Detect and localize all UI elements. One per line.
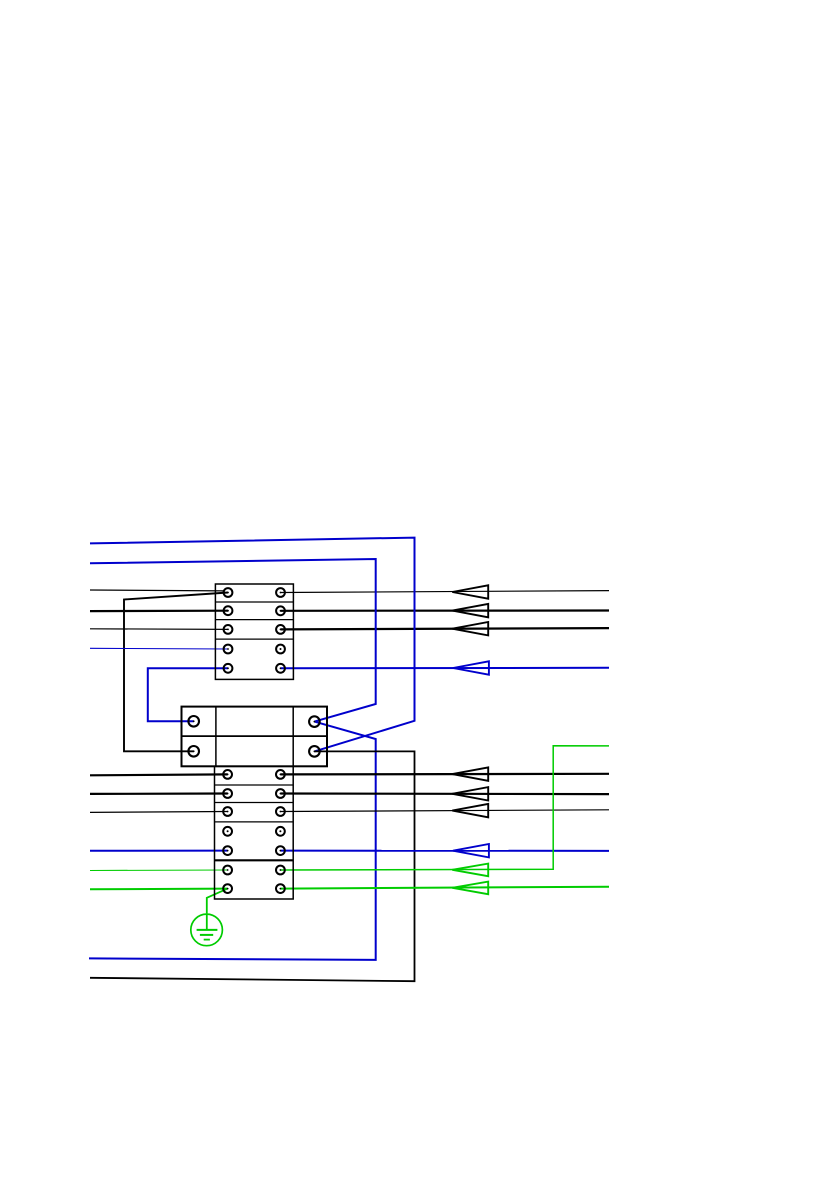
terminal TB2 pin 2L — [188, 746, 199, 757]
terminal block TB1 outline — [215, 584, 293, 679]
terminal TB1 pin 3L — [224, 625, 233, 634]
terminal block TB3 outline — [215, 766, 294, 899]
arrowhead on wire W22 — [452, 787, 488, 800]
wire W11 blue thick, top loop to TB2 pin 2R — [90, 538, 415, 752]
wire W27 green, TB3 pin 7L to ground — [207, 889, 228, 914]
terminal TB3 pin 5L — [223, 846, 232, 855]
TB2 inner vertical right — [292, 707, 294, 767]
TB3 cell separator 2 — [215, 802, 294, 804]
terminal TB3 pin 2R — [276, 789, 285, 798]
arrowhead on wire W7 — [452, 585, 488, 598]
terminal TB3 pin 4R (unconnected, centre dot) — [276, 827, 285, 836]
terminal TB3 pin 2L — [223, 789, 232, 798]
terminal TB3 pin 5R — [276, 846, 285, 855]
terminal TB1 pin 2R — [276, 606, 285, 615]
terminal TB1 pin 4R (unconnected, centre dot) — [276, 645, 285, 654]
terminal TB3 pin 3L — [223, 807, 232, 816]
ground (protective earth symbol) — [191, 913, 223, 945]
terminal TB1 pin 4L — [224, 645, 233, 654]
wire W7 black thin, TB1 pin 1R to right — [281, 591, 610, 593]
wire W9 black thick, TB1 pin 3R to right — [281, 628, 610, 629]
TB3 cell separator 3 — [215, 821, 294, 823]
terminal TB3 pin 1L — [223, 770, 232, 779]
arrowhead on wire W25 — [452, 864, 488, 877]
arrowhead on wire W9 — [452, 622, 488, 635]
wire W20 green thick, left feed to TB3 pin 7L — [90, 888, 228, 891]
wire W10 blue thick, TB1 pin 5R to right — [281, 667, 610, 670]
TB3 cell separator 4 (heavy) — [215, 859, 294, 861]
terminal TB1 pin 1R — [276, 588, 285, 597]
wire W4 black thin, left feed to TB1 pin 3L — [90, 628, 228, 631]
TB2 middle separator — [182, 735, 328, 737]
wire W18 blue thick, left feed to TB3 pin 5L — [90, 850, 228, 852]
wire W16 black thick, left feed to TB3 pin 2L — [90, 792, 228, 795]
wire W2 black jumper TB1 pin1L to TB2 pin 2L — [124, 593, 228, 752]
wire W23 black thin, TB3 pin 3R to right — [280, 810, 609, 812]
terminal TB3 pin 1R — [276, 770, 285, 779]
wire W1 black thin, left feed to TB1 pin 1L — [90, 589, 224, 592]
arrowhead on wire W10 — [453, 661, 489, 674]
wire W13 blue thick, TB2 pin 1R to bottom return — [89, 722, 376, 960]
wire W25 green thin, TB3 pin 6R up-over to right — [280, 746, 609, 870]
TB3 cell separator 1 — [215, 784, 294, 786]
wire W14 black, TB2 pin 2R to bottom return — [90, 751, 415, 981]
arrowhead on wire W21 — [452, 767, 488, 780]
terminal TB3 pin 6R — [276, 866, 285, 875]
terminal TB1 pin 3R — [276, 625, 285, 634]
arrowhead on wire W26 — [452, 882, 488, 895]
terminal TB3 pin 7R — [276, 884, 285, 893]
terminal TB3 pin 4L (unconnected, centre dot) — [223, 827, 232, 836]
wire W22 black thick, TB3 pin 2R to right — [280, 792, 609, 795]
terminal TB2 pin 1R — [309, 716, 320, 727]
wire W17 black thin, left feed to TB3 pin 3L — [90, 811, 228, 814]
wire W15 black thick, left feed to TB3 pin 1L — [90, 773, 228, 776]
TB1 cell separator 1 — [215, 601, 293, 603]
terminal TB3 pin 3R — [276, 807, 285, 816]
terminal block TB2 outline — [182, 707, 328, 767]
wire W21 black thick, TB3 pin 1R to right — [280, 773, 609, 776]
wire W6 blue thick, TB1 pin 5L to TB2 pin 1L — [148, 668, 228, 721]
wire W26 green thick, TB3 pin 7R to right — [280, 887, 609, 889]
arrowhead on wire W24 — [453, 844, 489, 857]
wire W3 black thick, left feed to TB1 pin 2L — [90, 610, 228, 613]
terminal TB1 pin 5R — [276, 664, 285, 673]
terminal TB1 pin 2L — [224, 606, 233, 615]
terminal TB3 pin 6L — [223, 866, 232, 875]
TB1 cell separator 3 — [215, 638, 293, 640]
wire W5 blue thin, left feed to TB1 pin 4L — [90, 647, 228, 650]
terminal TB1 pin 1L — [224, 588, 233, 597]
arrowhead on wire W8 — [452, 604, 488, 617]
terminal TB3 pin 7L — [223, 884, 232, 893]
arrowhead on wire W23 — [452, 804, 488, 817]
TB2 inner vertical left — [215, 707, 217, 767]
terminal TB2 pin 1L — [188, 716, 199, 727]
wire W19 green thin, left feed to TB3 pin 6L — [90, 869, 228, 872]
wire W8 black thick, TB1 pin 2R to right — [281, 609, 610, 611]
TB1 cell separator 2 — [215, 619, 293, 621]
terminal TB2 pin 2R — [309, 746, 320, 757]
wire W12 blue thick, second top loop to TB2 pin 1R — [90, 559, 376, 722]
terminal TB1 pin 5L — [224, 664, 233, 673]
wire W24 blue thick, TB3 pin 5R to right — [280, 850, 609, 852]
